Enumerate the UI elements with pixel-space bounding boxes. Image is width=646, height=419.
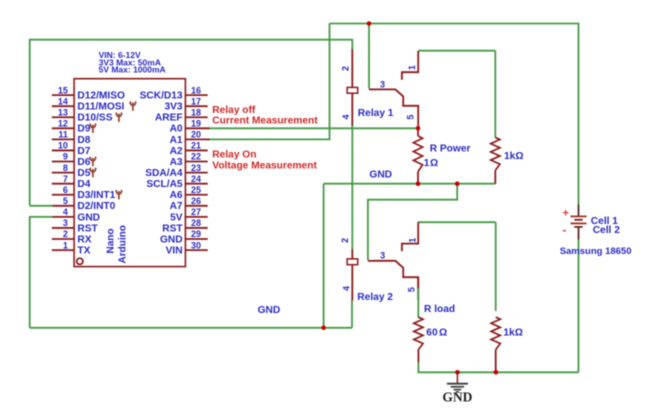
svg-text:AREF: AREF xyxy=(155,113,183,124)
svg-text:5: 5 xyxy=(405,115,415,120)
svg-text:5V Max: 1000mA: 5V Max: 1000mA xyxy=(99,65,166,75)
svg-text:Voltage Measurement: Voltage Measurement xyxy=(212,161,317,172)
svg-text:4: 4 xyxy=(342,286,352,291)
svg-text:D8: D8 xyxy=(77,135,90,146)
svg-text:Cell 2: Cell 2 xyxy=(593,225,621,236)
svg-text:2: 2 xyxy=(63,229,68,239)
svg-text:4: 4 xyxy=(341,114,351,119)
svg-text:R Power: R Power xyxy=(430,144,471,155)
svg-text:D12/MISO: D12/MISO xyxy=(77,91,125,102)
svg-text:Ω: Ω xyxy=(439,327,447,338)
svg-text:D6: D6 xyxy=(77,157,90,168)
svg-text:A3: A3 xyxy=(170,157,183,168)
svg-text:26: 26 xyxy=(191,196,201,206)
svg-text:24: 24 xyxy=(191,174,201,184)
svg-text:Ω: Ω xyxy=(430,158,438,169)
svg-text:R load: R load xyxy=(424,304,455,315)
svg-text:D9: D9 xyxy=(77,124,90,135)
svg-text:19: 19 xyxy=(191,119,201,129)
svg-text:3: 3 xyxy=(63,218,68,228)
svg-text:Relay off: Relay off xyxy=(212,105,256,116)
svg-text:Current Measurement: Current Measurement xyxy=(212,116,318,127)
svg-text:Nano: Nano xyxy=(106,229,117,254)
svg-text:GND: GND xyxy=(369,169,392,180)
svg-text:1: 1 xyxy=(407,238,417,243)
svg-text:SCL/A5: SCL/A5 xyxy=(146,179,183,190)
svg-text:17: 17 xyxy=(191,96,201,106)
svg-text:Relay On: Relay On xyxy=(212,149,256,160)
svg-text:Relay 1: Relay 1 xyxy=(358,108,394,119)
svg-text:GND: GND xyxy=(442,389,472,404)
svg-text:60: 60 xyxy=(426,327,438,338)
svg-text:1: 1 xyxy=(407,65,417,70)
svg-text:27: 27 xyxy=(191,207,201,217)
svg-text:RX: RX xyxy=(77,234,91,245)
svg-text:A7: A7 xyxy=(170,201,183,212)
svg-text:16: 16 xyxy=(191,85,201,95)
svg-text:3: 3 xyxy=(380,79,385,89)
svg-text:1kΩ: 1kΩ xyxy=(503,327,523,338)
svg-text:29: 29 xyxy=(191,229,201,239)
svg-text:D3/INT1: D3/INT1 xyxy=(77,190,115,201)
svg-text:6: 6 xyxy=(63,185,68,195)
svg-text:12: 12 xyxy=(58,119,68,129)
svg-text:RST: RST xyxy=(77,223,98,234)
svg-text:D11/MOSI: D11/MOSI xyxy=(77,102,124,113)
svg-text:2: 2 xyxy=(340,238,350,243)
svg-text:D5: D5 xyxy=(77,168,90,179)
svg-text:1: 1 xyxy=(424,158,430,169)
svg-text:20: 20 xyxy=(191,130,201,140)
svg-text:D7: D7 xyxy=(77,146,90,157)
svg-text:5: 5 xyxy=(63,196,68,206)
svg-text:-: - xyxy=(562,223,566,237)
svg-text:TX: TX xyxy=(77,245,90,256)
svg-text:25: 25 xyxy=(191,185,201,195)
svg-text:14: 14 xyxy=(58,96,68,106)
svg-text:+: + xyxy=(562,208,568,220)
svg-text:A0: A0 xyxy=(170,124,183,135)
svg-text:A2: A2 xyxy=(170,146,183,157)
svg-text:Relay 2: Relay 2 xyxy=(357,292,393,303)
svg-text:11: 11 xyxy=(58,130,68,140)
svg-text:23: 23 xyxy=(191,163,201,173)
svg-text:5: 5 xyxy=(407,287,417,292)
svg-text:3V3: 3V3 xyxy=(164,102,182,113)
svg-text:A6: A6 xyxy=(170,190,183,201)
svg-text:5V: 5V xyxy=(170,212,183,223)
svg-text:GND: GND xyxy=(160,234,183,245)
svg-text:1: 1 xyxy=(63,240,68,250)
svg-text:GND: GND xyxy=(77,212,100,223)
svg-text:28: 28 xyxy=(191,218,201,228)
svg-text:22: 22 xyxy=(191,152,201,162)
svg-text:A1: A1 xyxy=(170,135,183,146)
svg-text:GND: GND xyxy=(258,305,281,316)
svg-text:30: 30 xyxy=(191,240,201,250)
svg-text:4: 4 xyxy=(63,207,68,217)
svg-text:21: 21 xyxy=(191,141,201,151)
svg-text:18: 18 xyxy=(191,107,201,117)
svg-text:7: 7 xyxy=(63,174,68,184)
svg-text:1kΩ: 1kΩ xyxy=(504,151,524,162)
svg-text:Samsung 18650: Samsung 18650 xyxy=(560,246,632,257)
svg-text:SDA/A4: SDA/A4 xyxy=(145,168,183,179)
svg-text:10: 10 xyxy=(58,141,68,151)
svg-text:D2/INT0: D2/INT0 xyxy=(77,201,115,212)
svg-text:Arduino: Arduino xyxy=(118,225,129,263)
svg-text:D4: D4 xyxy=(77,179,90,190)
svg-text:SCK/D13: SCK/D13 xyxy=(140,91,183,102)
svg-text:3: 3 xyxy=(380,251,385,261)
svg-text:15: 15 xyxy=(58,85,68,95)
svg-text:D10/SS: D10/SS xyxy=(77,113,112,124)
svg-text:RST: RST xyxy=(162,223,183,234)
svg-text:8: 8 xyxy=(63,163,68,173)
svg-text:VIN: VIN xyxy=(166,245,183,256)
svg-text:13: 13 xyxy=(58,107,68,117)
svg-text:2: 2 xyxy=(341,66,351,71)
svg-text:9: 9 xyxy=(63,152,68,162)
